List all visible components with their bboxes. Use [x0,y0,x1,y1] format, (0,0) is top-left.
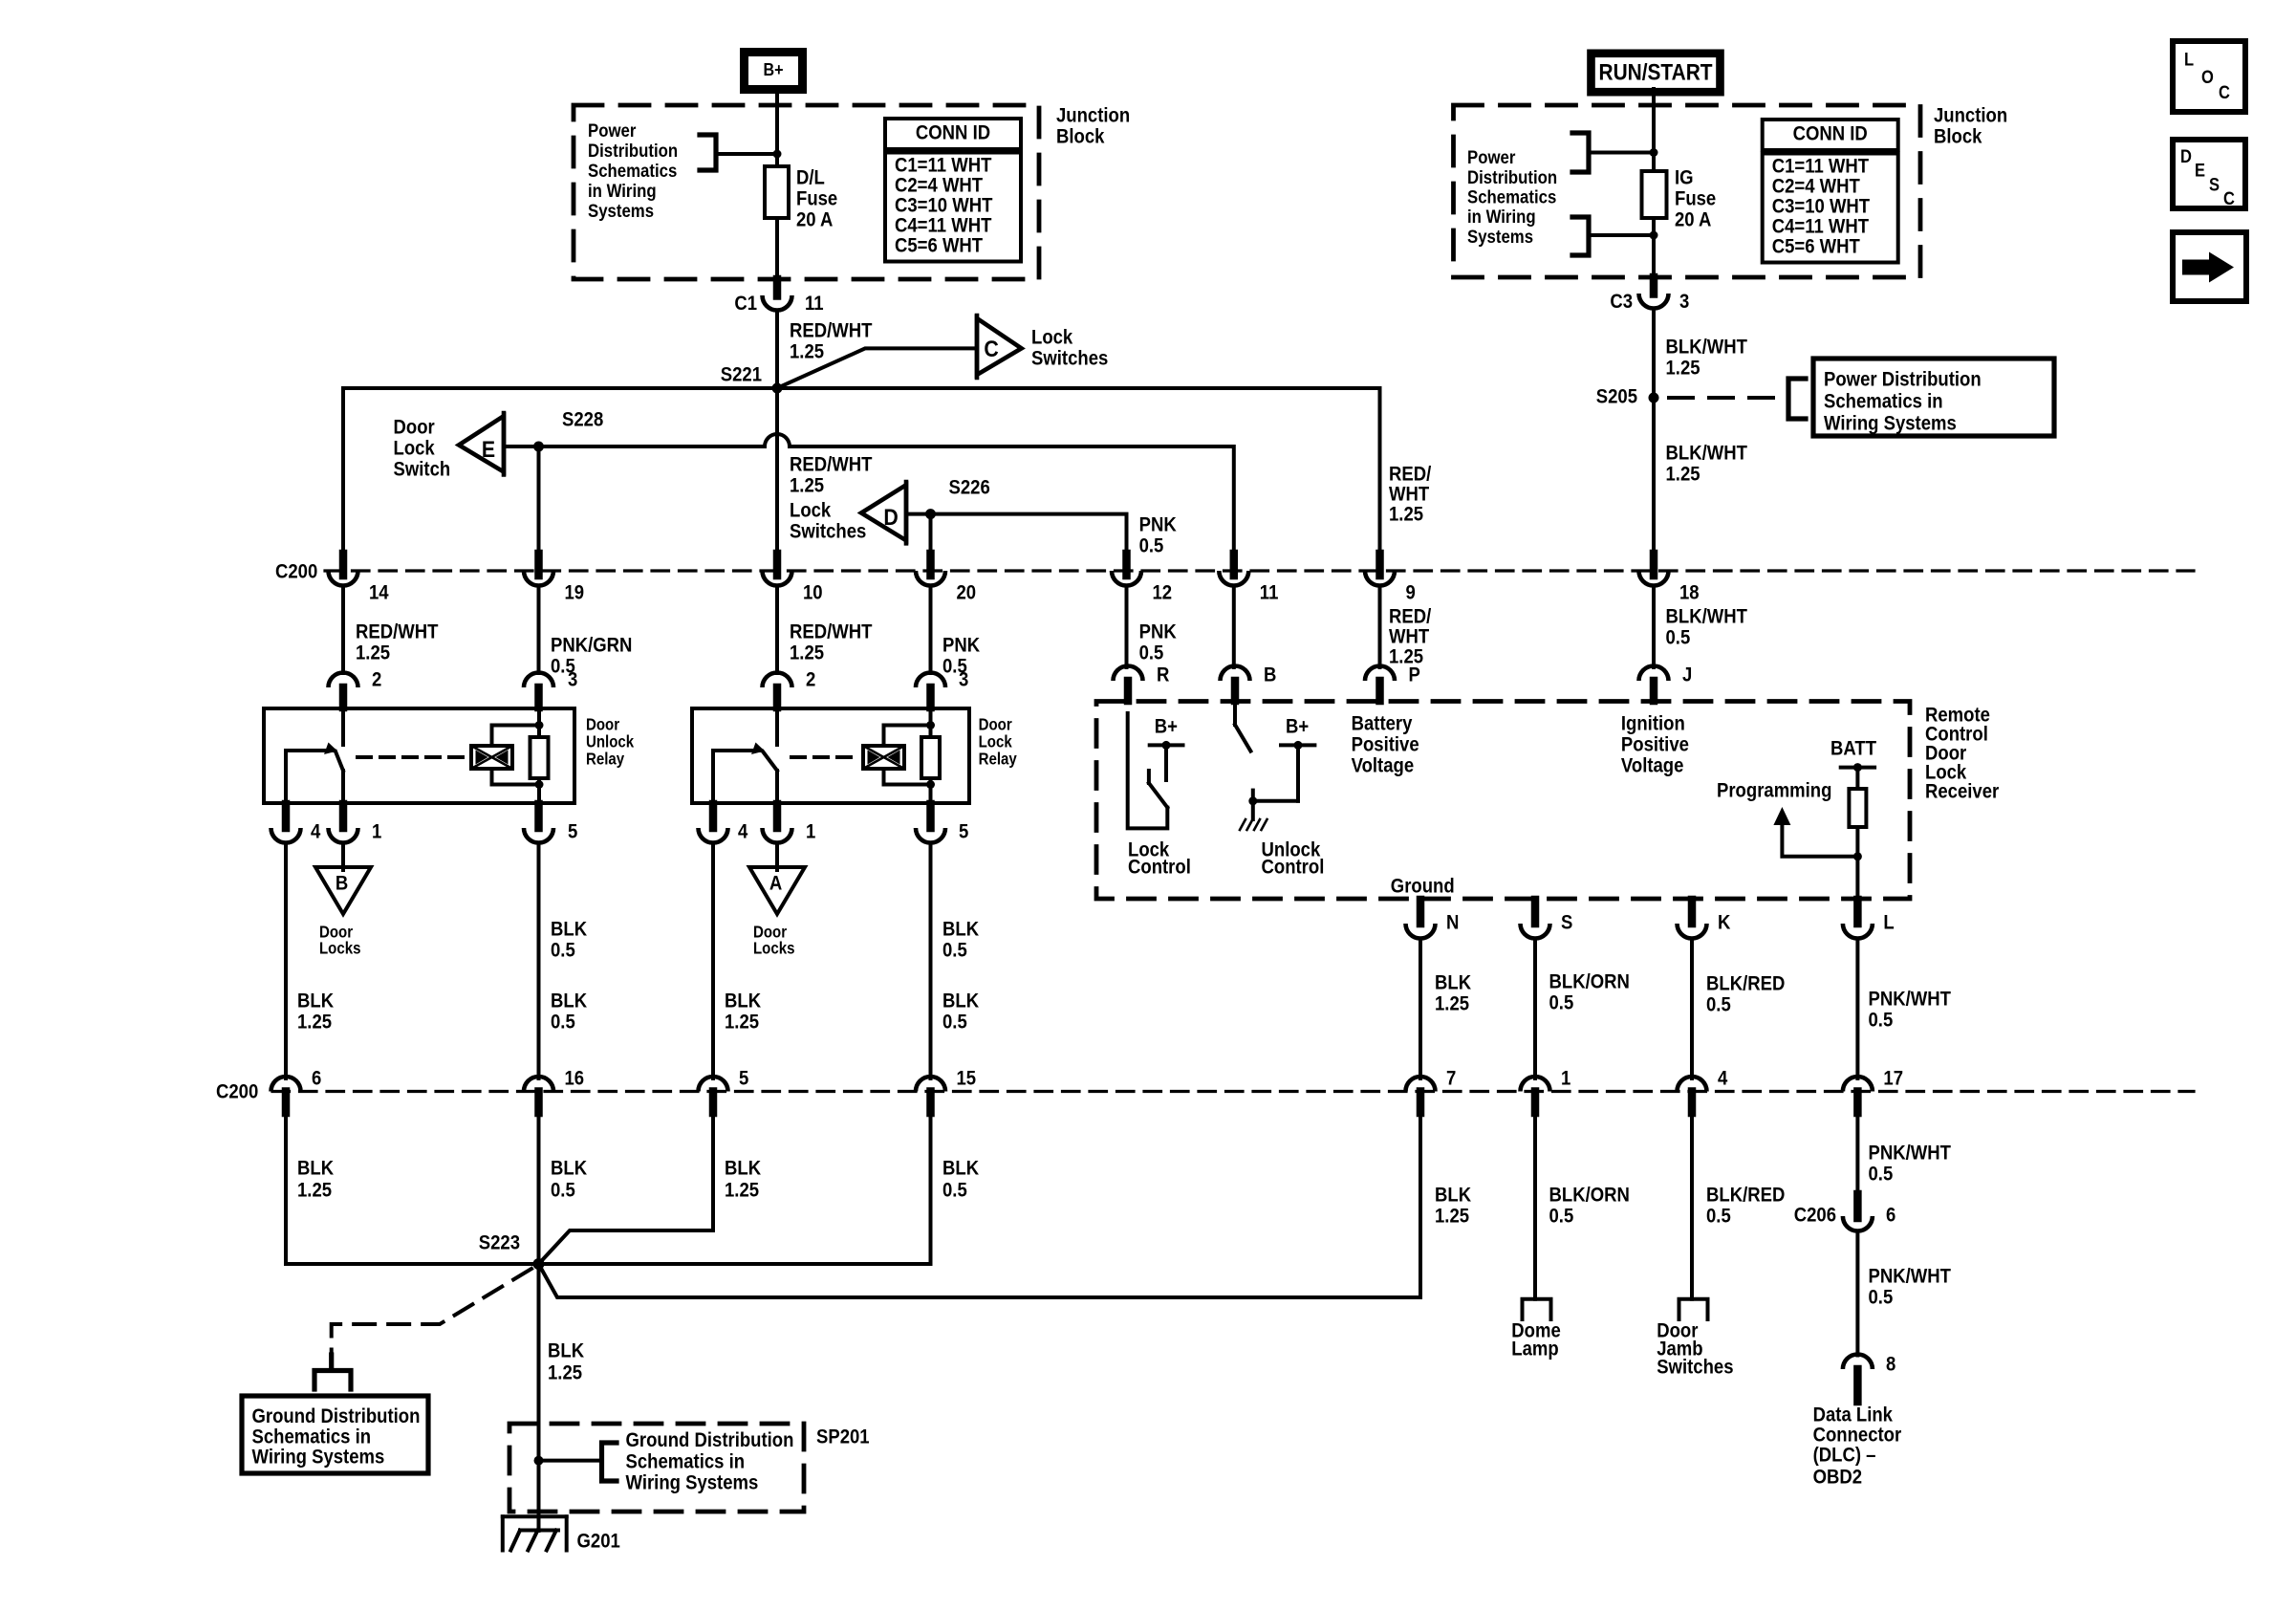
svg-text:BLK/RED: BLK/RED [1706,972,1785,994]
wire: fuse to connector C1 [775,218,779,281]
svg-text:20: 20 [957,581,977,603]
svg-text:PNK/WHT: PNK/WHT [1869,1142,1951,1164]
svg-text:Control: Control [1262,856,1325,878]
svg-text:Schematics in: Schematics in [252,1426,372,1448]
svg-text:BLK: BLK [725,1157,762,1179]
wire: BLK/ORN 0.5 C200-1 to dome lamp [1535,1112,1630,1299]
bracket: power distribution tap upper (right junction block) [1572,133,1654,172]
wire: PNK 0.5 C200-12 to receiver pin R [1127,586,1178,668]
svg-text:Switches: Switches [1657,1356,1733,1378]
label: Data Link Connector (DLC) - OBD2 [1813,1404,1902,1488]
svg-text:17: 17 [1883,1067,1903,1089]
dashed link: unlock relay coil to switch [357,755,463,759]
svg-text:1.25: 1.25 [548,1361,582,1383]
svg-text:11: 11 [1260,581,1279,603]
svg-text:C1=11 WHT: C1=11 WHT [1772,155,1869,177]
svg-text:1.25: 1.25 [1666,357,1700,379]
resistor: door unlock relay (parallel) [531,708,549,803]
connector C200 pin 14 [329,554,389,604]
svg-text:1.25: 1.25 [1435,992,1469,1014]
connector C200 pin 18 [1639,554,1700,604]
svg-text:R: R [1157,664,1169,686]
receiver pin B [1221,664,1277,701]
svg-text:K: K [1718,911,1731,933]
svg-text:B: B [1264,664,1276,686]
svg-text:Systems: Systems [1467,227,1533,247]
relay pin 3 (door unlock relay) [524,668,577,708]
svg-text:1.25: 1.25 [790,340,824,362]
connector row C200 (upper) dashed line [275,560,2194,582]
relay pin 5 (door unlock relay) [524,804,577,843]
svg-text:Door: Door [394,416,435,438]
svg-text:BLK: BLK [725,990,762,1012]
svg-text:19: 19 [565,581,585,603]
node: fuse tap junction (left) [773,150,782,159]
relay pin 1 (door lock relay) [763,804,816,843]
svg-text:BLK: BLK [942,918,980,940]
svg-text:0.5: 0.5 [942,1179,967,1201]
svg-text:C3=10 WHT: C3=10 WHT [895,194,992,216]
svg-text:Distribution: Distribution [1467,167,1557,187]
wire: RED/WHT 1.25 from C1 to S221 [777,311,872,389]
node S223 [479,1231,545,1270]
wire: BLK/WHT 0.5 C200-18 to receiver pin J [1654,586,1747,668]
svg-text:Power: Power [1467,147,1515,167]
wire: relay1 pin 1 to door locks triangle B [341,843,345,871]
arrow A: Door Locks (lock) [749,867,805,958]
wire: PNK/WHT 0.5 C206 to DLC pin 8 [1857,1231,1951,1356]
svg-text:4: 4 [1718,1067,1727,1089]
svg-text:1.25: 1.25 [725,1011,759,1033]
wire: BLK 1.25 C200-5 to S223 [539,1112,762,1264]
svg-text:BLK: BLK [551,990,588,1012]
node: splice SP201 junction [534,1456,544,1466]
relay pin 4 (door unlock relay) [271,804,321,843]
svg-text:SP201: SP201 [816,1426,870,1448]
svg-text:Systems: Systems [588,201,654,221]
connector C200 pin 6 (lower row) [271,1067,322,1113]
bracket: power distribution tap (left junction block) [700,135,777,170]
label: Junction Block (right) [1934,104,2007,147]
svg-text:1.25: 1.25 [297,1179,332,1201]
junction block (right) dashed outline [1454,105,1921,277]
connector C206 pin 6 [1794,1194,1896,1231]
svg-text:C5=6 WHT: C5=6 WHT [895,234,983,256]
wire: BLK 0.5 C200-16 to S223 [539,1112,588,1264]
svg-text:PNK: PNK [942,634,981,656]
wire: PNK/WHT 0.5 receiver L down to C200 pin 17 [1857,939,1951,1079]
svg-text:BLK: BLK [551,918,588,940]
wire: BLK/WHT 1.25 from C3 to S205 [1654,309,1747,399]
svg-text:Schematics: Schematics [588,161,677,181]
switch: door unlock relay contacts [286,708,343,803]
svg-text:Positive: Positive [1621,733,1689,755]
receiver pin L [1843,900,1895,938]
note box: Ground Distribution Schematics in Wiring Systems (left) [242,1396,428,1473]
connector DLC pin 8 [1843,1353,1895,1402]
svg-text:BLK: BLK [942,990,980,1012]
svg-text:0.5: 0.5 [1139,642,1164,664]
svg-text:BLK: BLK [548,1339,585,1361]
svg-text:C2=4 WHT: C2=4 WHT [895,174,983,196]
svg-text:Power: Power [588,120,636,141]
wire: BLK 1.25 receiver N down to C200 pin 7 [1420,939,1472,1079]
svg-text:Voltage: Voltage [1621,754,1684,776]
resistor: door lock relay (parallel) [921,708,940,803]
wire: PNK/WHT 0.5 C200-17 to C206 [1857,1112,1951,1195]
wire: BLK/WHT 1.25 from S205 to C200 pin 18 [1654,398,1747,555]
node: unlock relay coil top [535,721,544,729]
svg-text:C200: C200 [216,1080,258,1102]
svg-text:Lamp: Lamp [1511,1338,1558,1360]
svg-text:Switches: Switches [1031,347,1108,369]
component: Door Jamb Switches stub [1657,1299,1733,1379]
svg-text:5: 5 [739,1067,748,1089]
svg-text:Block: Block [1934,125,1982,147]
coil: door lock relay solenoid (X box) [863,726,931,785]
svg-text:Lock: Lock [790,499,832,521]
connector C200 pin 17 (lower row) [1843,1067,1903,1113]
svg-text:C: C [2219,82,2230,102]
svg-text:RED/WHT: RED/WHT [790,620,872,642]
connector C200 pin 11 [1219,554,1278,604]
wire: fuse to connector C3 [1652,218,1656,279]
relay pin 1 (door unlock relay) [329,804,382,843]
wire: RUN/START into junction block [1652,89,1656,171]
svg-text:0.5: 0.5 [942,939,967,961]
svg-text:S: S [1561,911,1572,933]
svg-text:Locks: Locks [753,940,794,958]
svg-text:BLK: BLK [297,990,335,1012]
dashed link: lock relay coil to switch [791,755,855,759]
relay U2 Door Lock Relay box [692,708,1017,803]
svg-text:6: 6 [312,1067,321,1089]
svg-text:14: 14 [369,581,389,603]
svg-text:0.5: 0.5 [1549,991,1574,1013]
svg-text:C3: C3 [1610,291,1633,313]
svg-text:B+: B+ [1155,715,1178,737]
svg-text:3: 3 [1679,291,1689,313]
svg-text:Power Distribution: Power Distribution [1824,368,1982,390]
relay U1 Door Unlock Relay box [264,708,635,803]
svg-text:8: 8 [1886,1353,1895,1375]
svg-text:1.25: 1.25 [725,1179,759,1201]
bracket: power distribution reference (right) [1788,379,1806,419]
wire: relay2 pin 1 to door locks triangle A [775,843,779,871]
junction block (left) dashed outline [574,105,1039,279]
wire: RED/WHT 1.25 C200-10 to relay pin 2 [777,586,872,674]
svg-text:in Wiring: in Wiring [588,181,657,201]
label: Battery Positive Voltage (receiver pin P) [1352,712,1419,776]
connector C200 pin 16 (lower row) [524,1067,584,1113]
label: RED/WHT 1.25 Lock Switches (wire to arrow D column) [790,453,872,542]
connector C200 pin 10 [763,554,823,604]
svg-text:C1=11 WHT: C1=11 WHT [895,154,991,176]
svg-text:WHT: WHT [1389,483,1429,505]
wire: BLK/RED 0.5 C200-4 to door jamb switches [1692,1112,1785,1299]
wire: RED/WHT from S221 down to C200 pin 10 [775,388,779,555]
svg-text:Ground: Ground [1391,875,1455,897]
svg-text:Data Link: Data Link [1813,1404,1894,1426]
svg-text:0.5: 0.5 [942,1011,967,1033]
connector C3 pin 3 [1610,277,1689,313]
receiver pin R [1114,664,1170,701]
switch: Unlock Control (inside receiver) [1235,703,1324,879]
svg-text:Junction: Junction [1934,104,2007,126]
wire: S221 to lock switches arrow C [777,348,975,388]
svg-text:Block: Block [1056,125,1105,147]
resistor: BATT pull-up (inside receiver) [1830,737,1876,899]
relay pin 2 (door lock relay) [763,668,816,708]
connector C200 pin 1 (lower row) [1521,1067,1571,1113]
svg-text:J: J [1682,664,1692,686]
svg-text:Ground Distribution: Ground Distribution [626,1429,794,1451]
note box: Power Distribution Schematics in Wiring Systems (right) [1813,359,2054,436]
wire: BLK 1.25 relay2 pin 4 down to C200 pin 5 [713,843,762,1079]
svg-text:Schematics in: Schematics in [626,1451,746,1473]
svg-text:Door: Door [979,716,1013,734]
wire: BLK 1.25 C200-6 to S223 [286,1112,539,1264]
svg-text:C3=10 WHT: C3=10 WHT [1772,195,1870,217]
svg-text:Switch: Switch [394,458,451,480]
arrow: Programming (inside receiver) [1717,779,1857,856]
connector C200 pin 9 [1365,554,1416,604]
svg-text:Distribution: Distribution [588,141,678,161]
svg-text:P: P [1409,664,1420,686]
svg-text:S226: S226 [949,476,990,498]
bracket: ground distribution reference (SP201) [539,1429,794,1494]
svg-text:Door: Door [586,716,620,734]
svg-text:Schematics in: Schematics in [1824,390,1943,412]
svg-text:Switches: Switches [790,520,866,542]
relay pin 4 (door lock relay) [699,804,748,843]
node: lock relay coil top [926,721,935,729]
svg-text:RED/: RED/ [1389,463,1432,485]
svg-text:2: 2 [372,668,381,690]
svg-text:7: 7 [1446,1067,1456,1089]
wire: BLK 1.25 relay1 pin 4 down to C200 pin 6 [286,843,335,1079]
receiver pin K [1678,900,1731,938]
svg-text:PNK/GRN: PNK/GRN [551,634,632,656]
connector row C200 (lower) dashed line [216,1080,2194,1102]
svg-text:Wiring Systems: Wiring Systems [252,1446,385,1468]
svg-text:C200: C200 [275,560,317,582]
svg-text:RUN/START: RUN/START [1598,59,1712,85]
svg-text:BATT: BATT [1830,737,1876,759]
node S205 [1596,385,1659,407]
svg-text:1.25: 1.25 [356,642,390,664]
dashed link: S223 to ground distribution note [332,1269,531,1355]
svg-text:20 A: 20 A [1675,208,1711,230]
wire: BLK/RED 0.5 receiver K down to C200 pin 4 [1692,939,1785,1079]
node: lock relay coil bottom [926,780,935,789]
receiver pin P [1365,664,1420,701]
svg-text:6: 6 [1886,1204,1895,1226]
wire: S221 bus right to C200 pin 9 [777,388,1432,555]
node: fuse tap junction lower (right) [1650,231,1658,240]
svg-text:Voltage: Voltage [1352,754,1415,776]
svg-text:Fuse: Fuse [1675,187,1716,209]
svg-text:Wiring Systems: Wiring Systems [1824,412,1957,434]
svg-text:0.5: 0.5 [1549,1205,1574,1227]
svg-text:B+: B+ [763,59,783,79]
svg-text:BLK: BLK [942,1157,980,1179]
wire: S226 to C200 pin 20 [929,514,933,555]
svg-text:RED/WHT: RED/WHT [790,319,872,341]
svg-text:15: 15 [957,1067,977,1089]
fuse D/L Fuse 20 A [765,166,837,231]
svg-text:C1: C1 [734,293,757,315]
svg-text:C206: C206 [1794,1204,1836,1226]
arrow D: to Lock Switches [861,482,906,543]
svg-text:18: 18 [1679,581,1700,603]
wire: S221 bus left to C200 pin 14 [343,388,777,555]
svg-text:1.25: 1.25 [790,474,824,496]
svg-text:BLK: BLK [551,1157,588,1179]
svg-text:5: 5 [568,820,577,842]
icon: DESC box (right) [2173,140,2245,208]
wire: BLK 0.5 relay1 pin 5 down to C200 pin 16 [539,843,588,1079]
svg-text:1.25: 1.25 [1435,1205,1469,1227]
coil: door unlock relay solenoid (X box) [471,726,539,785]
svg-text:0.5: 0.5 [1869,1286,1894,1308]
connector C200 pin 20 [916,554,976,604]
wire: S228 line from door lock switch arrow to C200 pin 11 (with hop over RED/WHT wire) [504,434,1234,555]
svg-text:RED/WHT: RED/WHT [790,453,872,475]
wire: BLK 0.5 relay2 pin 5 down to C200 pin 15 [931,843,980,1079]
label: Junction Block (left) [1056,104,1130,147]
svg-text:S223: S223 [479,1231,520,1253]
svg-text:1: 1 [1561,1067,1570,1089]
svg-text:RED/: RED/ [1389,605,1432,627]
svg-text:Wiring Systems: Wiring Systems [626,1472,759,1494]
svg-text:S228: S228 [562,408,603,430]
splice box SP201 (dashed) [509,1424,870,1512]
svg-text:PNK/WHT: PNK/WHT [1869,1265,1951,1287]
svg-text:L: L [2184,49,2194,69]
svg-text:0.5: 0.5 [551,1011,575,1033]
node S228 [533,408,603,451]
bracket: power distribution tap lower (right junction block) [1572,217,1654,255]
fuse IG Fuse 20 A [1642,166,1717,230]
svg-text:BLK: BLK [297,1157,335,1179]
svg-text:BLK: BLK [1435,971,1472,993]
svg-text:S221: S221 [721,363,762,385]
svg-text:D: D [883,504,898,531]
bracket: ground distribution reference stub [314,1355,351,1389]
svg-text:E: E [2195,160,2205,180]
wire: B+ into junction block to fuse [775,90,779,166]
node S226 [925,476,990,519]
svg-text:9: 9 [1406,581,1416,603]
wire: RED/WHT 1.25 C200-14 to relay pin 2 [343,586,438,674]
svg-text:A: A [769,872,782,894]
svg-text:D: D [2180,146,2192,166]
node S221 [721,363,783,393]
power symbol RUN/START box [1592,54,1721,92]
svg-text:10: 10 [803,581,823,603]
svg-text:L: L [1883,911,1894,933]
svg-text:B: B [336,872,348,894]
svg-text:BLK/WHT: BLK/WHT [1666,442,1747,464]
wire: BLK 0.5 C200-15 to S223 [539,1112,980,1264]
svg-text:B+: B+ [1286,715,1309,737]
receiver pin N [1406,900,1460,938]
svg-text:CONN ID: CONN ID [1793,122,1868,144]
node: programming tap [1853,852,1862,860]
switch: door lock relay contacts [713,708,777,803]
arrow B: Door Locks (unlock) [315,867,371,958]
svg-text:Lock: Lock [394,437,436,459]
svg-text:PNK: PNK [1139,620,1178,642]
svg-text:0.5: 0.5 [1139,534,1164,556]
icon: LOC box (top right) [2173,41,2245,112]
svg-text:Unlock: Unlock [586,733,635,751]
svg-text:N: N [1446,911,1459,933]
svg-text:Control: Control [1128,856,1191,878]
svg-text:3: 3 [959,668,968,690]
arrow E: to Door Lock Switch [394,413,505,481]
wire: BLK/ORN 0.5 receiver S down to C200 pin 1 [1535,939,1630,1079]
svg-text:16: 16 [565,1067,585,1089]
node: unlock relay coil bottom [535,780,544,789]
svg-text:1.25: 1.25 [790,642,824,664]
svg-text:Ground Distribution: Ground Distribution [252,1405,421,1427]
svg-text:Connector: Connector [1813,1424,1902,1446]
svg-text:C2=4 WHT: C2=4 WHT [1772,175,1860,197]
svg-text:1.25: 1.25 [297,1011,332,1033]
svg-text:BLK/WHT: BLK/WHT [1666,336,1747,358]
dashed link: S205 to power distribution note [1669,396,1780,400]
switch: Lock Control (inside receiver) [1128,713,1191,879]
table: CONN ID (left junction block) [885,119,1021,262]
svg-text:Relay: Relay [979,751,1017,769]
svg-text:5: 5 [959,820,968,842]
label: Ignition Positive Voltage (receiver pin J) [1621,712,1689,776]
svg-text:E: E [482,436,495,463]
svg-text:RED/WHT: RED/WHT [356,620,438,642]
ground symbol: unlock control internal ground [1240,819,1267,830]
svg-text:WHT: WHT [1389,625,1429,647]
connector C200 pin 7 (lower row) [1406,1067,1457,1113]
note: Power Distribution Schematics in Wiring Systems (right junction block) [1467,147,1557,247]
svg-text:PNK/WHT: PNK/WHT [1869,988,1951,1010]
svg-text:PNK: PNK [1139,513,1178,535]
svg-text:20 A: 20 A [796,208,833,230]
svg-text:Relay: Relay [586,751,624,769]
svg-text:C: C [984,336,998,362]
connector C200 pin 5 (lower row) [699,1067,749,1113]
svg-text:0.5: 0.5 [551,939,575,961]
svg-text:4: 4 [311,820,320,842]
svg-text:Locks: Locks [319,940,360,958]
svg-text:S: S [2209,174,2220,194]
svg-text:S205: S205 [1596,385,1637,407]
svg-text:1: 1 [806,820,815,842]
svg-text:G201: G201 [577,1530,620,1552]
wire: S226 line from lock switches arrow D to C200 pin 12 [906,513,1177,556]
relay pin 2 (door unlock relay) [329,668,382,708]
connector C200 pin 15 (lower row) [916,1067,976,1113]
arrow C: to Lock Switches [977,316,1108,378]
svg-text:0.5: 0.5 [551,1179,575,1201]
svg-text:Fuse: Fuse [796,187,837,209]
wire: RED/WHT 1.25 C200-9 to receiver pin P [1380,586,1432,668]
receiver pin S [1521,900,1573,938]
note: Power Distribution Schematics in Wiring Systems (left junction block) [588,120,678,221]
svg-text:C: C [2223,188,2235,208]
svg-text:Lock: Lock [1031,326,1073,348]
